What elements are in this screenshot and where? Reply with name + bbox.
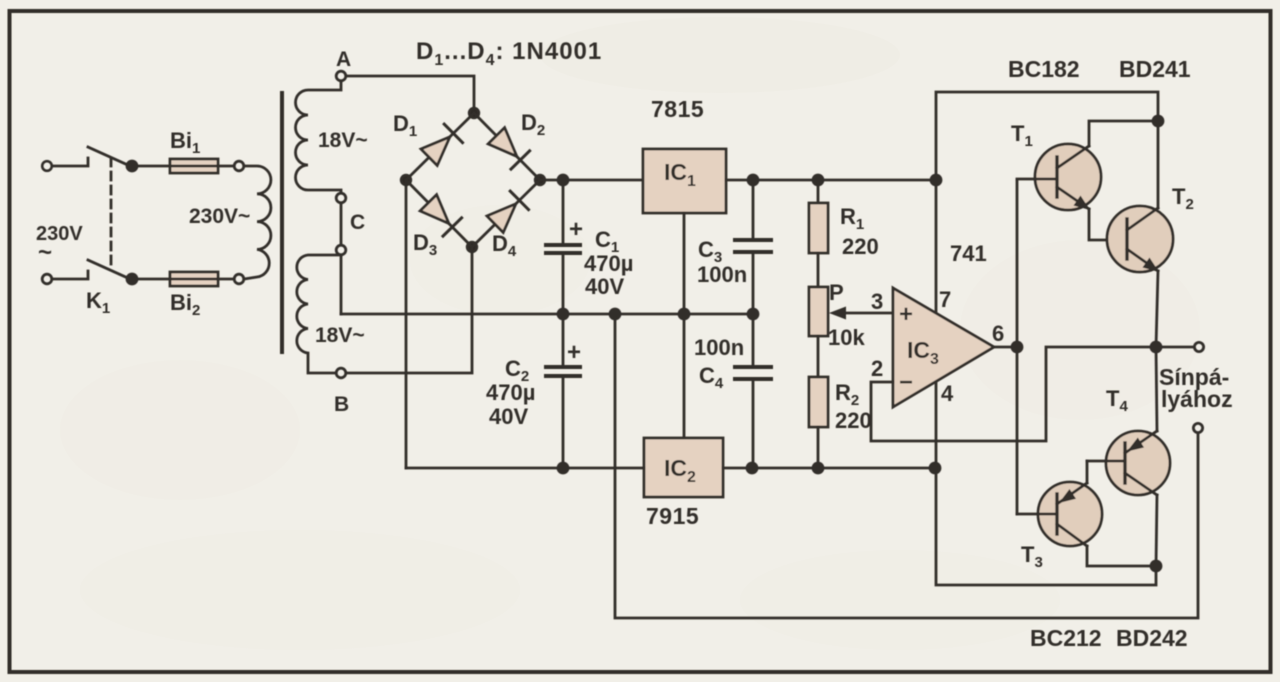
svg-text:230V~: 230V~ [189,205,250,228]
svg-text:7: 7 [939,287,951,312]
svg-text:D1...D4: 1N4001: D1...D4: 1N4001 [416,38,602,69]
transistor T1 [1017,144,1101,210]
input terminal bottom [42,274,52,284]
svg-text:100n: 100n [694,335,744,360]
node C2 bottom [558,463,568,473]
node T collectors [1153,116,1163,126]
bridge node top [469,108,479,118]
output terminal lower [1193,423,1202,432]
resistor R2 [809,377,828,427]
IC1 box 7815 [643,149,726,213]
svg-text:10k: 10k [828,325,865,350]
wire base chain T1 T3 [1016,180,1019,514]
potentiometer wiper arrow [829,307,893,320]
svg-text:40V: 40V [489,404,528,429]
svg-text:7815: 7815 [651,96,704,122]
bridge node left [401,175,411,185]
transformer core [280,93,284,352]
capacitor C1 [546,180,580,314]
node A terminal [336,71,346,81]
node B terminal [336,368,346,378]
wire IC2 ground [683,314,686,438]
svg-text:3: 3 [871,289,883,314]
node opamp output [1012,342,1022,352]
diode D1 [421,124,463,165]
terminal primary top [234,161,244,171]
bridge node bottom [467,242,477,252]
svg-text:A: A [336,48,351,71]
node switch bottom [127,274,137,284]
wire IC1 ground [683,213,686,314]
resistor R1 [809,180,828,253]
ground mid rail [341,313,753,316]
node C3 top [748,175,758,185]
bridge node right [535,175,545,185]
bridge edge wires [406,113,540,247]
transistor T3 [1017,482,1102,546]
wire bridge bottom to B row [346,247,472,373]
svg-text:BD242: BD242 [1116,625,1188,651]
svg-text:+: + [569,216,583,243]
wire -V to T3 T4 collectors [936,468,1156,585]
diode D4 [487,191,529,232]
svg-text:741: 741 [950,241,987,266]
wire to fuse Bi1 [132,165,170,168]
svg-text:470µ: 470µ [486,380,535,405]
wire T3 collector [1087,546,1156,566]
wire C link [340,203,343,245]
node opamp pin4 row [930,463,940,473]
wire T1 emitter to T2 base [1089,209,1127,240]
transistor T4 [1087,431,1170,495]
capacitor C2 [546,314,580,468]
svg-text:P: P [829,280,844,305]
transformer primary winding [244,166,271,279]
fuse Bi2 [170,272,218,286]
svg-text:lyához: lyához [1161,386,1233,412]
wire fuse Bi2 to transformer [218,278,234,281]
capacitor C3 [735,180,771,314]
node emitters output [1151,342,1161,352]
IC2 box 7915 [644,438,723,497]
wire fuse Bi1 to transformer [218,165,234,168]
ground wire down and bottom rail [615,314,1198,618]
node C lower terminal [336,245,346,255]
svg-text:470µ: 470µ [584,251,633,276]
wire R2 to row [817,427,820,468]
svg-text:100n: 100n [697,262,747,287]
wire opamp pin7 and top rail [936,92,1158,316]
svg-text:6: 6 [992,321,1004,346]
diode D2 [488,128,529,169]
node R1 top [813,175,823,185]
wire T2 collector [1157,121,1160,208]
output terminal upper [1194,342,1203,351]
node T3 T4 collectors [1151,561,1161,571]
transformer secondary winding lower [297,255,341,373]
wire bridge positive to IC1 [540,179,643,182]
svg-text:+: + [899,301,913,328]
svg-text:−: − [899,369,913,396]
switch K1 top blade [88,147,130,166]
wire T2 emitter to output [1156,271,1158,347]
fuse Bi1 [170,159,218,173]
wire IC2 input row left [406,467,644,470]
wire IC1 output rail [726,179,936,182]
node C1 bottom [558,309,568,319]
svg-text:+: + [567,339,581,366]
input terminal top [42,161,52,171]
wire P to R2 [817,336,820,377]
node C4 bottom [747,463,757,473]
switch K1 mechanical link (dashed) [110,158,113,270]
svg-text:220: 220 [842,234,879,259]
potentiometer P [809,287,828,336]
svg-text:7915: 7915 [646,503,699,529]
svg-text:18V~: 18V~ [315,324,365,347]
switch K1 bottom blade [88,260,130,279]
wire opamp pin4 [935,380,938,468]
svg-text:C: C [350,211,365,234]
wire R1 to P [817,253,820,287]
node C1 top [558,175,568,185]
svg-text:4: 4 [941,381,954,406]
wire T1 collector [1089,121,1158,146]
wire opamp output [994,346,1017,349]
node ground drop [610,309,620,319]
svg-text:BC182: BC182 [1008,56,1080,82]
node R2 bottom [813,463,823,473]
wire opamp pin2 feedback [871,347,1194,441]
node IC1 ground [679,309,689,319]
diode D3 [420,195,461,236]
capacitor C4 [735,314,771,468]
transformer secondary winding upper [296,81,342,193]
node +V rail end [931,175,941,185]
svg-text:40V: 40V [585,274,624,299]
svg-text:18V~: 18V~ [318,129,368,152]
wire T4 collector [1156,495,1157,566]
terminal primary bottom [234,274,244,284]
node C3 bottom [748,309,758,319]
wire bridge negative down [405,180,408,468]
wire A to bridge [346,76,474,110]
svg-text:220: 220 [835,408,872,433]
transistor T2 [1107,206,1173,272]
wire IC2 output row right [723,467,935,470]
svg-text:B: B [334,393,349,416]
node C upper terminal [336,193,346,203]
svg-text:~: ~ [38,239,52,266]
wire to fuse Bi2 [132,278,170,281]
svg-text:2: 2 [871,356,883,381]
op-amp IC3 [893,288,994,407]
svg-text:BC212: BC212 [1030,625,1102,651]
svg-text:BD241: BD241 [1119,56,1191,82]
wire input bottom [52,271,88,279]
wire T3 emitter to T4 base [1086,461,1089,483]
wire output to T4 emitter [1156,347,1157,431]
wire input top [52,158,88,166]
ground wire from C [340,255,343,314]
node switch top [127,161,137,171]
